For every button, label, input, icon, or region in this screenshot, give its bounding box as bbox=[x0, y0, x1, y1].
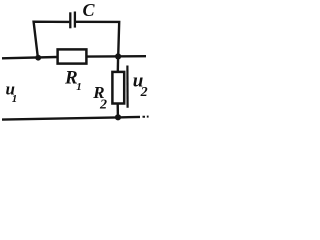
svg-text:1: 1 bbox=[12, 93, 17, 105]
svg-text:1: 1 bbox=[76, 81, 82, 93]
svg-text:2: 2 bbox=[140, 85, 148, 100]
svg-text:C: C bbox=[83, 0, 96, 20]
svg-text:2: 2 bbox=[99, 98, 107, 113]
